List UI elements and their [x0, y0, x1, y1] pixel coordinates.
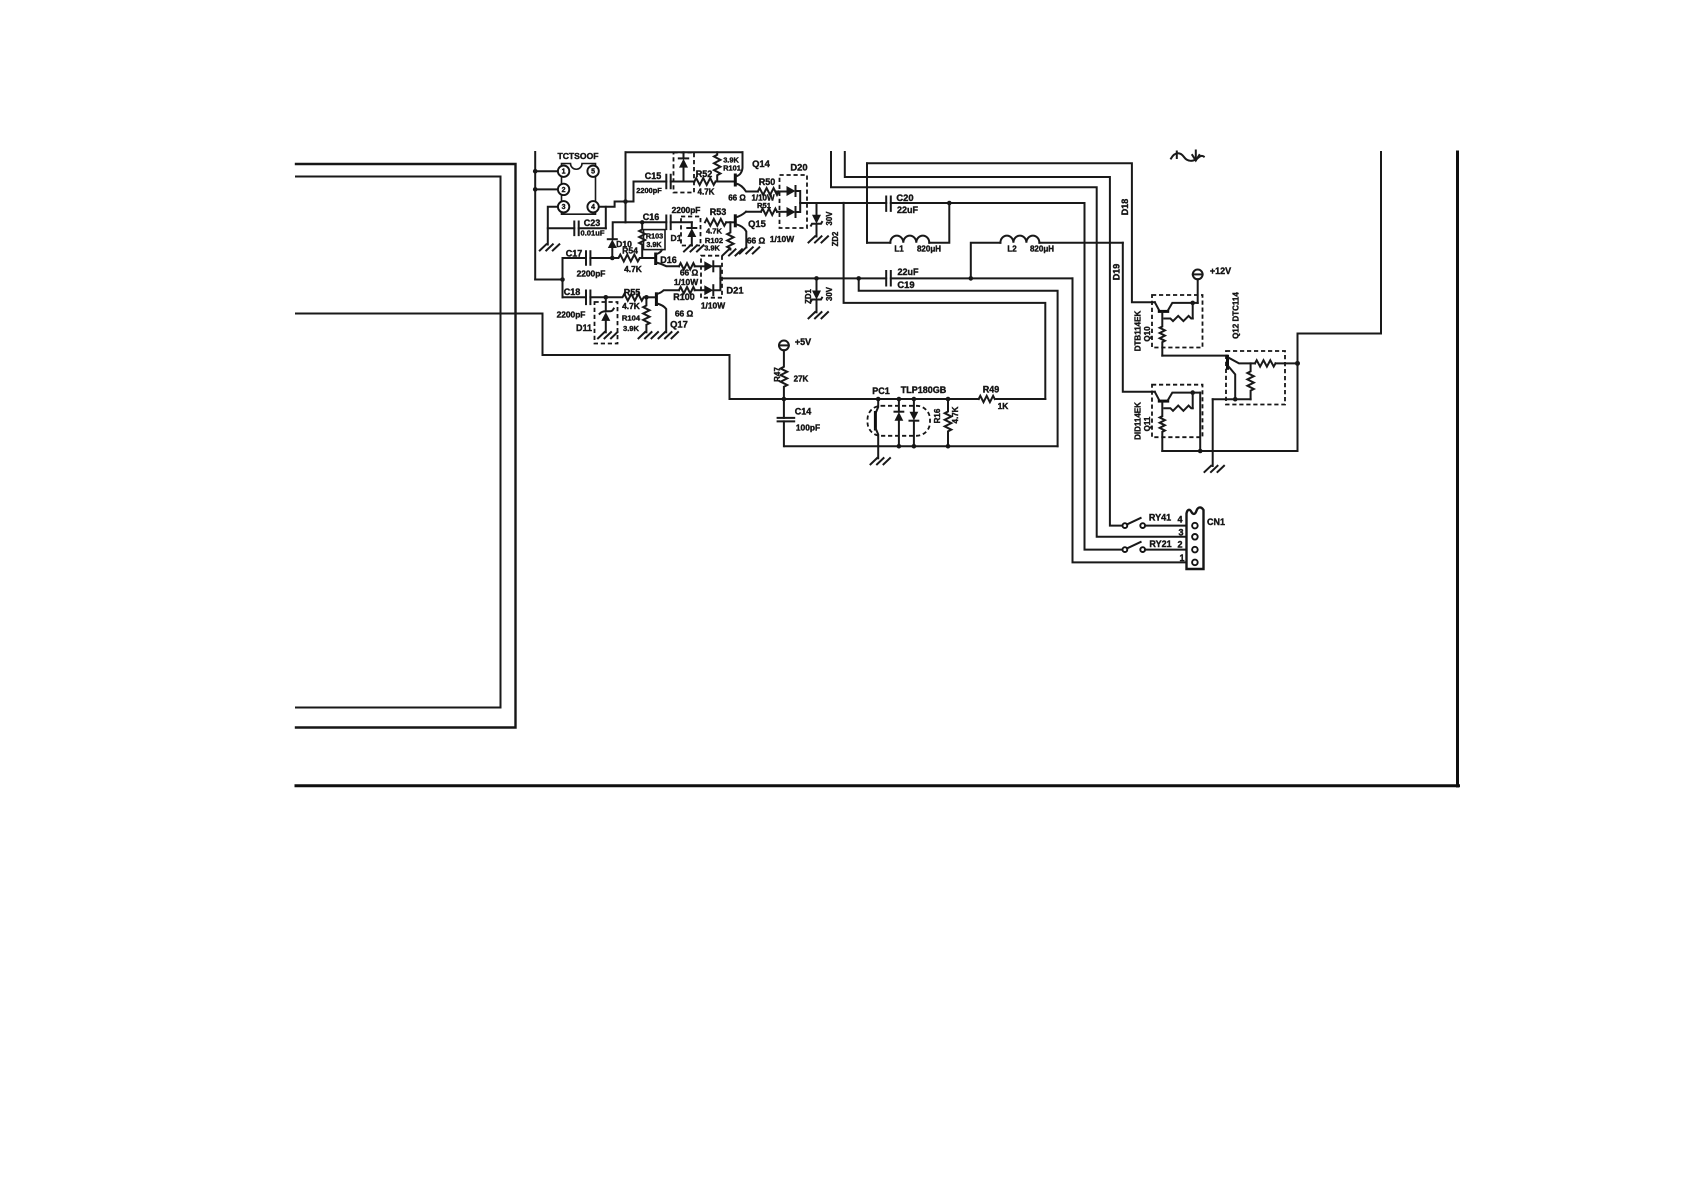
IC pin circles	[558, 166, 569, 177]
svg-text:C18: C18	[564, 287, 581, 297]
node C20/L1	[947, 201, 952, 206]
svg-text:0.01uF: 0.01uF	[580, 229, 604, 238]
svg-text:27K: 27K	[794, 375, 809, 384]
svg-text:66 Ω: 66 Ω	[675, 309, 694, 319]
svg-text:R49: R49	[983, 385, 1000, 395]
svg-text:C16: C16	[643, 212, 660, 222]
transistor Q10 DTB114EK digital	[1152, 295, 1203, 348]
diode D21 lower	[704, 285, 713, 295]
top rail to Q14 collector	[626, 151, 743, 153]
svg-text:3.9K: 3.9K	[623, 324, 640, 333]
svg-text:D19: D19	[1112, 264, 1122, 281]
wire Q15 to R51	[746, 211, 761, 213]
resistor R53 4.7K	[705, 219, 726, 226]
ground R104	[639, 332, 659, 338]
svg-text:820μH: 820μH	[1030, 245, 1054, 254]
svg-text:3.9K: 3.9K	[704, 244, 720, 253]
wire pin1	[535, 170, 558, 172]
svg-text:PC1: PC1	[872, 386, 890, 396]
svg-text:3: 3	[1178, 528, 1183, 538]
capacitor C15	[634, 181, 695, 183]
wire continuation symbol (wave with down arrow)	[1171, 153, 1204, 161]
resistor R47 27K	[781, 350, 788, 399]
inductor L2 820uH	[971, 243, 1001, 279]
page frame right border	[1456, 152, 1459, 786]
ground Q15	[740, 247, 760, 253]
svg-text:2: 2	[1177, 540, 1182, 550]
resistor R101 3.9K	[714, 152, 720, 181]
svg-text:DTB114EK: DTB114EK	[1134, 311, 1143, 352]
ground Q12	[1212, 399, 1214, 466]
svg-text:RY41: RY41	[1149, 513, 1171, 523]
svg-text:D1: D1	[671, 233, 682, 243]
resistor R55 4.7K	[606, 294, 647, 301]
svg-text:1: 1	[1179, 553, 1184, 563]
svg-text:4.7K: 4.7K	[951, 406, 960, 423]
zener ZD2 30V	[816, 203, 818, 215]
Q11 base-emitter resistor	[1192, 393, 1194, 409]
svg-text:C17: C17	[566, 249, 583, 259]
svg-text:D20: D20	[790, 162, 807, 173]
transistor Q15	[734, 214, 737, 227]
inductor L1 820uH	[866, 163, 868, 243]
wire C20 to RY21	[1085, 203, 1123, 550]
relay contact RY21	[1123, 547, 1128, 552]
page frame bottom border	[296, 784, 1459, 787]
resistor R49 1K	[979, 396, 995, 402]
wire C16 line left drop to D10	[613, 222, 626, 239]
svg-text:Q10: Q10	[1143, 326, 1152, 342]
svg-text:D18: D18	[1120, 199, 1130, 216]
transistor Q17	[655, 292, 658, 306]
wire pin3 to ground	[548, 207, 558, 245]
svg-text:Q14: Q14	[752, 158, 771, 169]
wire D19	[1123, 243, 1155, 392]
wire D21 output / C19 line left	[720, 277, 886, 279]
svg-text:C14: C14	[795, 407, 812, 417]
PC1 LED1	[897, 397, 902, 402]
connector CN1	[1187, 507, 1204, 569]
optocoupler PC1 TLP180GB dashed outline	[868, 406, 931, 436]
vertical bus x625.5 with rail	[625, 152, 627, 222]
svg-text:ZD1: ZD1	[804, 288, 813, 303]
ground R102	[723, 249, 743, 255]
svg-text:R50: R50	[759, 177, 776, 187]
D20 output bus	[796, 191, 801, 212]
node C19/L2	[969, 276, 974, 281]
svg-text:Q17: Q17	[670, 319, 688, 330]
transistor D16 (Q16)	[654, 253, 657, 266]
wire stub to C15 line	[626, 182, 634, 202]
svg-text:R53: R53	[710, 207, 727, 217]
wire D18	[867, 163, 1155, 302]
svg-text:4.7K: 4.7K	[624, 264, 642, 274]
wire bus to C17 bus	[535, 279, 562, 281]
svg-text:1: 1	[562, 169, 566, 176]
svg-text:1/10W: 1/10W	[770, 234, 794, 244]
capacitor C23	[548, 227, 606, 229]
Q10 series resistor to output	[1160, 311, 1165, 355]
resistor R51	[761, 209, 777, 215]
svg-text:C15: C15	[645, 171, 662, 181]
transistor Q14	[734, 174, 737, 187]
node R103/C17line	[642, 257, 649, 259]
resistor R50 66ohm 1/10W	[758, 188, 779, 195]
diode D15 dashed box under C16	[681, 217, 701, 246]
node pin2	[533, 187, 538, 192]
svg-text:R51: R51	[757, 201, 772, 210]
svg-text:22uF: 22uF	[897, 267, 919, 277]
wire pin4 to C15/C16 bus	[599, 202, 626, 207]
svg-text:R55: R55	[624, 288, 641, 298]
resistor R16 4.7K	[946, 397, 951, 402]
svg-text:C20: C20	[896, 192, 913, 203]
svg-text:L2: L2	[1007, 245, 1017, 254]
diode D11 dashed box	[595, 302, 618, 344]
transistor Q11 DTD114EK digital	[1152, 385, 1203, 438]
resistor R52 4.7K	[694, 178, 715, 185]
left big box inner rectangle (open left)	[296, 177, 501, 708]
svg-text:2200pF: 2200pF	[636, 186, 662, 195]
node pin1	[533, 169, 538, 174]
svg-text:30V: 30V	[825, 211, 834, 226]
svg-text:TCTSOOF: TCTSOOF	[557, 151, 598, 161]
Q10 base-emitter resistor	[1192, 303, 1194, 319]
IC U1 TCTSOOF body	[562, 164, 596, 215]
svg-text:Q11: Q11	[1143, 416, 1152, 431]
svg-text:1/10W: 1/10W	[674, 277, 698, 287]
IC input bus wire	[534, 152, 536, 280]
wire C23 right to pin4	[605, 207, 607, 229]
PC1 phototransistor	[876, 399, 879, 413]
resistor R54 4.7K	[612, 255, 642, 262]
svg-text:3.9K: 3.9K	[646, 240, 662, 249]
wire y290.7 (C19 stub to PC1 return)	[859, 278, 1058, 446]
svg-text:100pF: 100pF	[796, 423, 820, 433]
node bus-C17	[560, 277, 565, 282]
svg-text:4: 4	[1177, 515, 1182, 525]
svg-text:ZD2: ZD2	[831, 231, 840, 246]
wire y187 line	[831, 152, 1187, 537]
Q11 output line	[1162, 450, 1297, 452]
svg-text:R104: R104	[622, 314, 641, 323]
C17/C18 left bus	[562, 258, 564, 297]
svg-text:30V: 30V	[825, 286, 834, 301]
svg-text:1/10W: 1/10W	[701, 301, 725, 311]
D21 output bus	[713, 266, 720, 290]
wire y177 line	[845, 152, 1123, 526]
capacitor C20	[886, 197, 891, 211]
svg-text:TLP180GB: TLP180GB	[901, 385, 947, 395]
svg-text:66 Ω: 66 Ω	[747, 236, 766, 246]
node D10/C17	[610, 256, 615, 261]
wire vertical from top at x1381	[1298, 152, 1382, 451]
svg-text:Q12 DTC114: Q12 DTC114	[1232, 292, 1241, 339]
resistor R103 3.9K boxed label	[639, 222, 645, 258]
wire y302.9 (C20 tap to R49)	[844, 203, 1046, 399]
Q11 series resistor to output	[1160, 401, 1165, 451]
svg-text:5: 5	[591, 169, 595, 176]
svg-text:CN1: CN1	[1207, 517, 1225, 527]
wire D20 output to C20 line	[800, 202, 886, 204]
wire C19 to CN1 pin1	[1073, 278, 1187, 562]
resistor 66ohm (to D21 upper)	[679, 263, 695, 269]
svg-text:+12V: +12V	[1210, 266, 1231, 276]
svg-text:R47: R47	[773, 367, 782, 382]
diode pair D21 (dashed box)	[701, 256, 722, 298]
+12V supply	[1193, 270, 1203, 280]
transistor Q12 DTC114 digital	[1226, 351, 1285, 405]
capacitor C19	[886, 271, 891, 286]
svg-text:D16: D16	[660, 255, 677, 265]
svg-text:+5V: +5V	[795, 337, 811, 347]
svg-text:66 Ω: 66 Ω	[680, 268, 699, 278]
capacitor C16	[626, 221, 692, 223]
svg-text:820μH: 820μH	[917, 245, 941, 254]
svg-text:1K: 1K	[998, 401, 1009, 411]
left big box outer rectangle (open left)	[296, 164, 516, 728]
resistor R100 66ohm 1/10W	[679, 287, 695, 293]
wire from left box to PC1 rail (y313 step)	[296, 314, 979, 400]
svg-text:RY21: RY21	[1149, 539, 1171, 549]
svg-text:66 Ω: 66 Ω	[728, 194, 746, 203]
svg-text:3: 3	[562, 204, 566, 211]
svg-text:4.7K: 4.7K	[622, 301, 640, 311]
PC1 LED2	[912, 397, 917, 402]
svg-text:2200pF: 2200pF	[557, 310, 586, 320]
svg-text:Q15: Q15	[748, 218, 766, 229]
diode pair D20 (dashed box)	[780, 175, 808, 228]
svg-text:4.7K: 4.7K	[706, 227, 723, 236]
PC1 bottom return wire	[785, 445, 1058, 447]
zener ZD1 30V	[814, 276, 819, 281]
svg-text:D21: D21	[726, 285, 743, 296]
capacitor C18	[563, 296, 606, 298]
svg-text:22uF: 22uF	[897, 205, 919, 215]
svg-text:R52: R52	[696, 169, 713, 179]
svg-text:R101: R101	[723, 164, 741, 173]
node PC1 collector	[876, 397, 881, 402]
wire Q10 out to Q12 base	[1162, 355, 1227, 357]
svg-text:4.7K: 4.7K	[698, 188, 715, 197]
svg-text:2200pF: 2200pF	[577, 269, 606, 279]
svg-text:R54: R54	[622, 246, 638, 256]
node R47	[782, 397, 787, 402]
relay contact RY41	[1123, 523, 1128, 528]
resistor R102 3.9K	[727, 222, 733, 249]
svg-text:2200pF: 2200pF	[672, 205, 701, 215]
svg-text:C19: C19	[897, 279, 914, 290]
svg-text:D11: D11	[576, 323, 592, 333]
svg-text:DID114EK: DID114EK	[1134, 402, 1143, 440]
wire pin2	[535, 188, 558, 190]
diode D20 lower	[787, 207, 796, 217]
svg-text:R100: R100	[673, 292, 695, 302]
PC1 ground	[877, 446, 879, 458]
node pin4 bus	[623, 199, 628, 204]
ground pin3/C23	[540, 244, 560, 250]
diode D21 upper	[704, 261, 713, 271]
+5V supply	[779, 341, 789, 351]
capacitor C17	[563, 257, 612, 259]
svg-text:L1: L1	[894, 245, 904, 254]
ground Q17	[659, 332, 679, 338]
svg-text:C23: C23	[584, 218, 601, 228]
svg-text:4: 4	[591, 204, 595, 211]
diode D20 upper	[787, 186, 796, 196]
diode D15a in dashed box above C15	[674, 153, 695, 193]
capacitor C14 100pF	[783, 399, 785, 418]
resistor R104 3.9K	[643, 297, 649, 332]
diode D10	[608, 238, 617, 240]
node C18/D11	[604, 295, 609, 300]
svg-text:R16: R16	[933, 408, 942, 423]
svg-text:2: 2	[562, 187, 566, 194]
